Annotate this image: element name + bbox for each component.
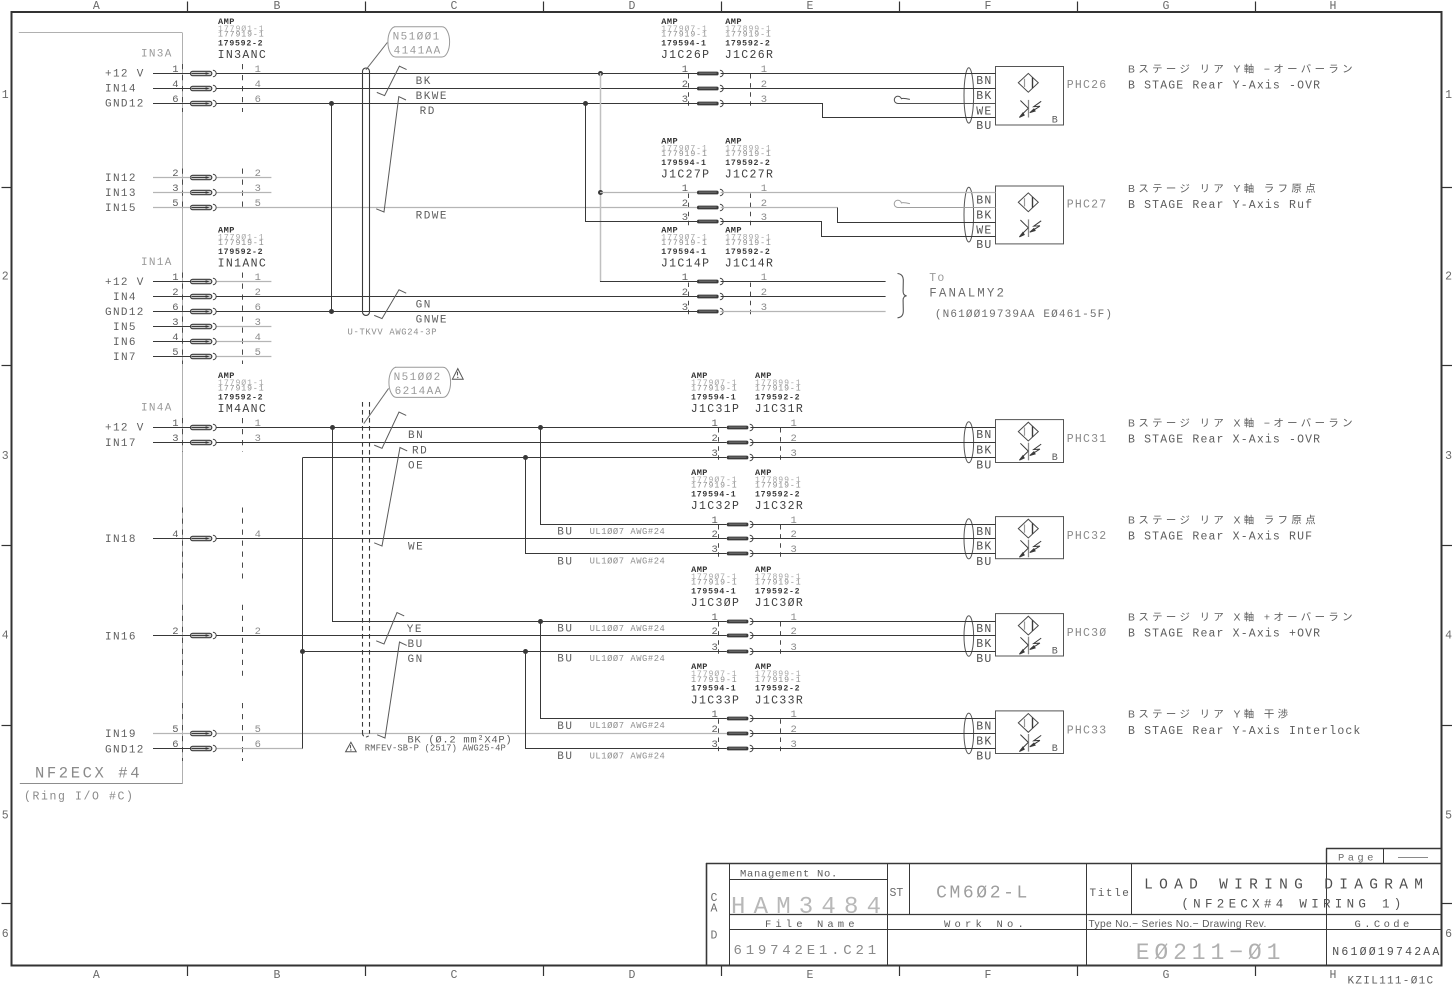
svg-text:2: 2 <box>2 271 9 284</box>
svg-text:3: 3 <box>791 739 797 751</box>
wire label BU UL1007 AWG#24 <box>557 624 665 636</box>
connector J1C31R pin number 3 <box>791 448 797 460</box>
svg-text:BK: BK <box>976 638 992 651</box>
svg-text:IN17: IN17 <box>105 438 137 450</box>
pin number 3 <box>172 433 178 445</box>
connector label J1C14R <box>725 258 775 271</box>
svg-text:GNWE: GNWE <box>416 315 448 327</box>
svg-text:D: D <box>629 0 636 13</box>
svg-text:J1C31P: J1C31P <box>691 403 741 416</box>
svg-text:BU: BU <box>976 751 992 764</box>
wire label BK at PHC32 <box>976 541 992 554</box>
connector J1C31P/J1C31R boundary dashed lines <box>719 428 781 463</box>
wire color label BKWE <box>416 91 448 103</box>
svg-text:2: 2 <box>711 433 717 445</box>
description (EN) for PHC31 <box>1128 434 1321 447</box>
svg-text:GN: GN <box>416 300 432 312</box>
svg-text:N51ØØ2: N51ØØ2 <box>394 372 442 384</box>
svg-text:IN14: IN14 <box>105 84 137 96</box>
svg-text:177919-1: 177919-1 <box>661 150 708 159</box>
pin 3 terminal <box>191 323 217 330</box>
connector boundary dashed lines <box>183 508 243 579</box>
connector J1C26R pin number 2 <box>761 79 767 91</box>
svg-text:Bステージ リア X軸 −オーバーラン: Bステージ リア X軸 −オーバーラン <box>1128 416 1356 429</box>
svg-text:RDWE: RDWE <box>416 210 448 222</box>
connector J1C3ØP pin number 1 <box>711 612 717 624</box>
svg-text:IN18: IN18 <box>105 534 137 546</box>
drawing title LOAD WIRING DIAGRAM <box>1144 878 1429 912</box>
svg-text:UL1ØØ7 AWG#24: UL1ØØ7 AWG#24 <box>590 624 666 634</box>
pin 2 terminal <box>191 174 217 181</box>
svg-text:1: 1 <box>791 612 797 624</box>
svg-text:J1C33R: J1C33R <box>755 694 805 707</box>
connector boundary dashed lines <box>183 169 243 213</box>
svg-text:A: A <box>711 903 718 916</box>
svg-text:+12 V: +12 V <box>105 423 145 435</box>
svg-text:HAM3484: HAM3484 <box>731 894 889 921</box>
connector J1C14P part number stack <box>661 225 708 257</box>
svg-text:5: 5 <box>2 810 9 823</box>
pin number 2 <box>172 287 178 299</box>
wire GND branch to J1C33P pin3 <box>526 652 727 749</box>
signal label IN13 <box>105 188 137 200</box>
description (EN) for PHC3Ø <box>1128 628 1321 641</box>
CAD column label <box>711 892 718 943</box>
photocoupler PHC26 box <box>996 67 1064 126</box>
ST label <box>890 887 904 900</box>
svg-text:IN13: IN13 <box>105 188 137 200</box>
svg-text:IN15: IN15 <box>105 203 137 215</box>
connector J1C32P pin number 1 <box>711 515 717 527</box>
svg-text:IN16: IN16 <box>105 632 137 644</box>
svg-text:3: 3 <box>682 94 688 106</box>
svg-text:177919-1: 177919-1 <box>661 239 708 248</box>
svg-text:RMFEV-SB-P (2517) AWG25-4P: RMFEV-SB-P (2517) AWG25-4P <box>365 744 506 754</box>
svg-text:179592-2: 179592-2 <box>725 39 770 48</box>
wire color label YE <box>407 624 423 636</box>
signal label IN16 <box>105 632 137 644</box>
svg-text:+12 V: +12 V <box>105 277 145 289</box>
junction dot at (525.6,457.5) <box>523 455 528 460</box>
svg-text:RD: RD <box>420 106 436 118</box>
pin number 1 (connector side) <box>255 272 261 284</box>
svg-text:File Name: File Name <box>765 919 859 931</box>
svg-text:Bステージ リア Y軸 ラフ原点: Bステージ リア Y軸 ラフ原点 <box>1128 182 1319 195</box>
svg-text:J1C31R: J1C31R <box>755 403 805 416</box>
svg-text:177919-1: 177919-1 <box>218 239 265 248</box>
svg-text:UL1ØØ7 AWG#24: UL1ØØ7 AWG#24 <box>590 751 666 761</box>
connector J1C27P pin 2 terminal <box>697 204 723 211</box>
connector J1C3ØR pin number 1 <box>791 612 797 624</box>
svg-text:E: E <box>807 969 814 982</box>
svg-text:BN: BN <box>976 526 992 539</box>
pin 6 terminal <box>191 100 217 107</box>
pair mark GN/BK-4P <box>377 642 407 738</box>
svg-text:1: 1 <box>711 418 717 430</box>
connector J1C26P pin number 3 <box>682 94 688 106</box>
svg-text:6214AA: 6214AA <box>395 386 443 398</box>
connector label J1C26R <box>725 49 775 62</box>
wire color label RD <box>412 445 428 457</box>
pin number 6 <box>172 302 178 314</box>
pin number 6 (connector side) <box>255 94 261 106</box>
connector boundary dashed lines <box>183 418 243 452</box>
svg-text:1: 1 <box>791 418 797 430</box>
svg-text:J1C14R: J1C14R <box>725 258 775 271</box>
svg-text:G: G <box>1163 969 1170 982</box>
svg-text:EØ211−Ø1: EØ211−Ø1 <box>1136 940 1286 966</box>
wire into PHC33 <box>750 748 995 750</box>
wire IN13 stub <box>217 192 272 194</box>
wire label BN at PHC31 <box>976 429 992 442</box>
svg-text:6: 6 <box>172 94 178 106</box>
svg-text:G: G <box>1163 0 1170 13</box>
svg-text:3: 3 <box>2 450 9 463</box>
pin number 4 <box>172 79 178 91</box>
File Name header <box>765 919 859 931</box>
signal label +12 V <box>105 69 145 81</box>
pin number 6 <box>172 94 178 106</box>
svg-text:J1C32R: J1C32R <box>755 500 805 513</box>
phototransistor symbol in PHC26 <box>1019 100 1041 118</box>
wire IN5 label to pin3 <box>153 326 191 328</box>
svg-text:BU: BU <box>557 624 573 636</box>
svg-text:3: 3 <box>682 212 688 224</box>
svg-text:2: 2 <box>172 287 178 299</box>
junction dot GND at (331.8,311.5) <box>329 309 334 314</box>
warning triangle at RMFEV cable note <box>346 742 357 751</box>
connector J1C31P pin 2 terminal <box>727 439 753 446</box>
connector label J1C31R <box>755 403 805 416</box>
pin 5 terminal <box>191 353 217 360</box>
wire GND riser x=585.2 to J1C27P pin3 <box>586 104 698 222</box>
pin number 5 (connector side) <box>255 198 261 210</box>
wire label BN at PHC27 <box>976 195 992 208</box>
pair mark GN/GNWE <box>374 290 406 319</box>
wire label BU at PHC3Ø <box>976 653 992 666</box>
connector J1C32R pin number 1 <box>791 515 797 527</box>
wire color label BU <box>408 639 424 651</box>
svg-text:C: C <box>451 969 458 982</box>
cable spec label U-TKVV AWG24-3P <box>348 328 438 338</box>
G.Code header <box>1355 919 1413 931</box>
svg-text:1: 1 <box>682 64 688 76</box>
svg-text:BK: BK <box>976 736 992 749</box>
warning triangle at balloon N51002 <box>452 369 463 380</box>
connector J1C3ØP pin 1 terminal <box>727 618 753 625</box>
junction dot at (525.6,651) <box>523 649 528 654</box>
svg-text:179592-2: 179592-2 <box>725 248 770 257</box>
signal label IN19 <box>105 729 137 741</box>
svg-text:1: 1 <box>711 515 717 527</box>
svg-text:4: 4 <box>2 630 9 643</box>
description (JP) for PHC31 <box>1128 416 1356 429</box>
component label PHC3Ø <box>1067 627 1108 640</box>
wire into PHC26 <box>721 73 996 75</box>
signal label IN5 <box>113 322 137 334</box>
wire color label RDWE <box>416 210 448 222</box>
wire IN16 label to pin2 <box>153 635 191 637</box>
svg-text:B: B <box>274 969 281 982</box>
junction dot GND at (331.8,103) <box>329 101 334 106</box>
svg-text:4: 4 <box>255 529 261 541</box>
svg-text:2: 2 <box>255 287 261 299</box>
svg-text:179594-1: 179594-1 <box>691 393 736 402</box>
balloon N51002 / 6214AA <box>389 367 451 398</box>
connector J1C27P pin number 2 <box>682 198 688 210</box>
pin number 6 (connector side) <box>255 302 261 314</box>
description (EN) for PHC33 <box>1128 725 1361 738</box>
pin number 4 <box>172 529 178 541</box>
svg-text:179594-1: 179594-1 <box>661 248 706 257</box>
photocoupler PHC3Ø cable grommet <box>964 616 974 656</box>
svg-text:Bステージ リア Y軸 干渉: Bステージ リア Y軸 干渉 <box>1128 708 1291 721</box>
connector J1C33P pin number 2 <box>711 724 717 736</box>
connector J1C33P/J1C33R boundary dashed lines <box>719 719 781 753</box>
connector J1C14R pin number 1 <box>761 272 767 284</box>
photocoupler PHC26 cable grommet <box>964 68 974 123</box>
svg-text:177919-1: 177919-1 <box>755 385 802 394</box>
svg-text:1: 1 <box>761 64 767 76</box>
wire into PHC3Ø <box>750 621 995 623</box>
svg-text:B: B <box>1052 647 1058 658</box>
component label PHC31 <box>1067 433 1108 446</box>
node IN3A group label <box>141 49 173 61</box>
svg-text:J1C14P: J1C14P <box>661 258 711 271</box>
connector label IM4ANC <box>218 403 268 416</box>
wire +12V IN1A pin1 stub <box>217 281 272 283</box>
connector J1C3ØP pin number 2 <box>711 626 717 638</box>
wire color label RD <box>420 106 436 118</box>
wire +12V feed to J1C14P pin1 <box>600 281 697 283</box>
svg-text:D: D <box>711 930 718 943</box>
component label PHC26 <box>1067 79 1108 92</box>
connector J1C31P pin number 2 <box>711 433 717 445</box>
svg-text:IN4A: IN4A <box>141 403 173 415</box>
wire label WE at PHC26 <box>976 106 992 119</box>
connector J1C33P pin number 3 <box>711 739 717 751</box>
pin 1 terminal <box>191 70 217 77</box>
description (EN) for PHC27 <box>1128 199 1313 212</box>
svg-text:3: 3 <box>791 544 797 556</box>
svg-text:A: A <box>93 0 100 13</box>
pin number 3 (connector side) <box>255 317 261 329</box>
svg-text:Bステージ リア Y軸 −オーバーラン: Bステージ リア Y軸 −オーバーラン <box>1128 62 1356 75</box>
wire IN14 label to pin4 <box>153 88 191 90</box>
svg-text:IN12: IN12 <box>105 173 137 185</box>
wire label BU at PHC27 <box>976 239 992 252</box>
cable N51002 bundle (RMFEV-SB-P shielded, dashed) <box>363 402 370 737</box>
svg-text:177919-1: 177919-1 <box>725 31 772 40</box>
wire GND branch to J1C32P pin3 <box>526 458 727 554</box>
svg-text:BK: BK <box>976 445 992 458</box>
svg-text:2: 2 <box>711 626 717 638</box>
svg-text:H: H <box>1330 0 1337 13</box>
svg-text:J1C26R: J1C26R <box>725 49 775 62</box>
svg-text:F: F <box>985 0 992 13</box>
connector J1C31P pin 1 terminal <box>727 424 753 431</box>
connector label J1C32P <box>691 500 741 513</box>
junction dot GND at (585.2,103) <box>583 101 588 106</box>
photo emitter/detector symbol in PHC31 <box>1018 422 1038 441</box>
description (JP) for PHC33 <box>1128 708 1291 721</box>
photo emitter/detector symbol in PHC26 <box>1018 73 1038 92</box>
svg-text:UL1ØØ7 AWG#24: UL1ØØ7 AWG#24 <box>590 721 666 731</box>
svg-text:J1C33P: J1C33P <box>691 694 741 707</box>
pair mark BK/BKWE <box>377 66 407 95</box>
connector J1C33P pin 3 terminal <box>727 745 753 752</box>
svg-text:N61ØØ19742AA: N61ØØ19742AA <box>1332 946 1441 959</box>
wire IN12 stub <box>217 177 272 179</box>
svg-text:1: 1 <box>172 272 178 284</box>
balloon N51001 / 4141AA <box>388 27 450 58</box>
connector J1C3ØP pin 2 terminal <box>727 632 753 639</box>
svg-text:4: 4 <box>1445 630 1452 643</box>
pin 6 terminal <box>191 745 217 752</box>
connector J1C27P/J1C27R boundary dashed lines <box>689 194 751 227</box>
connector J1C26P/J1C26R boundary dashed lines <box>689 74 751 108</box>
pin number 3 (connector side) <box>255 183 261 195</box>
connector J1C31R pin number 2 <box>791 433 797 445</box>
svg-text:J1C26P: J1C26P <box>661 49 711 62</box>
wire into PHC31 <box>750 427 995 429</box>
pin number 5 <box>172 198 178 210</box>
signal label IN15 <box>105 203 137 215</box>
svg-text:3: 3 <box>711 739 717 751</box>
pin number 2 (connector side) <box>255 168 261 180</box>
phototransistor symbol in PHC32 <box>1019 540 1041 558</box>
svg-text:B: B <box>1052 116 1058 127</box>
svg-text:179592-2: 179592-2 <box>725 159 770 168</box>
svg-text:J1C3ØP: J1C3ØP <box>691 597 741 610</box>
connector label J1C3ØR <box>755 597 805 610</box>
svg-text:6: 6 <box>255 302 261 314</box>
svg-text:2: 2 <box>682 79 688 91</box>
connector J1C31R pin number 1 <box>791 418 797 430</box>
cable N51001 bundle (U-TKVV AWG24-3P) <box>363 68 370 315</box>
wire into PHC31 <box>750 442 995 444</box>
connector J1C27P pin number 1 <box>682 183 688 195</box>
svg-text:177919-1: 177919-1 <box>725 150 772 159</box>
wire IN15 label to pin5 <box>153 207 191 209</box>
wire color label WE <box>408 542 424 554</box>
svg-text:1: 1 <box>761 272 767 284</box>
wire label BU at PHC32 <box>976 556 992 569</box>
svg-text:6: 6 <box>172 739 178 751</box>
connector J1C26P pin 1 terminal <box>697 70 723 77</box>
connector J1C31P pin number 3 <box>711 448 717 460</box>
svg-text:3: 3 <box>791 448 797 460</box>
svg-text:177919-1: 177919-1 <box>755 579 802 588</box>
svg-text:B: B <box>274 0 281 13</box>
svg-text:179592-2: 179592-2 <box>755 393 800 402</box>
wire +12V label to IN1A pin1 <box>153 281 191 283</box>
svg-text:B: B <box>1052 453 1058 464</box>
wire color label BK <box>416 76 432 88</box>
svg-text:Bステージ リア X軸 +オーバーラン: Bステージ リア X軸 +オーバーラン <box>1128 610 1356 623</box>
pin number 2 (connector side) <box>255 626 261 638</box>
connector J1C33P part number stack <box>691 662 738 694</box>
connector J1C3ØP/J1C3ØR boundary dashed lines <box>719 622 781 656</box>
signal label IN12 <box>105 173 137 185</box>
connector J1C32P pin 1 terminal <box>727 521 753 528</box>
connector J1C32R part number stack <box>755 468 802 500</box>
svg-text:1: 1 <box>255 64 261 76</box>
description (JP) for PHC3Ø <box>1128 610 1356 623</box>
connector J1C26R pin number 3 <box>761 94 767 106</box>
wire label BU at PHC33 <box>976 751 992 764</box>
wire label BU UL1007 AWG#24 <box>557 654 665 666</box>
connector J1C33R pin number 2 <box>791 724 797 736</box>
pin number 1 <box>172 64 178 76</box>
wire IN19 label to pin5 <box>153 733 191 735</box>
connector boundary dashed lines <box>183 605 243 676</box>
svg-text:B: B <box>1052 744 1058 755</box>
wire label BU UL1007 AWG#24 <box>557 527 665 539</box>
wire with jog into PHC27 <box>721 222 996 237</box>
connector label J1C32R <box>755 500 805 513</box>
signal label GND12 <box>105 99 145 111</box>
wire label BU at PHC31 <box>976 460 992 473</box>
signal label IN17 <box>105 438 137 450</box>
wire IN7 stub <box>217 356 272 358</box>
svg-text:177919-1: 177919-1 <box>755 482 802 491</box>
svg-text:IN7: IN7 <box>113 352 137 364</box>
connector boundary dashed lines <box>183 273 243 365</box>
connector label J1C33R <box>755 694 805 707</box>
connector J1C33P pin 2 terminal <box>727 730 753 737</box>
svg-text:LOAD WIRING DIAGRAM: LOAD WIRING DIAGRAM <box>1144 878 1429 894</box>
svg-text:H: H <box>1330 969 1337 982</box>
svg-text:2: 2 <box>791 529 797 541</box>
connector label J1C31P <box>691 403 741 416</box>
svg-text:OE: OE <box>408 461 424 473</box>
wire label BU at PHC26 <box>976 120 992 133</box>
svg-text:Page: Page <box>1338 853 1377 865</box>
svg-text:BKWE: BKWE <box>416 91 448 103</box>
wire IN6 stub <box>217 341 272 343</box>
machine type CM602-L <box>936 884 1030 904</box>
wire +12V IN3A pin1 to J1C26P pin1 <box>217 73 698 75</box>
svg-text:BU: BU <box>976 460 992 473</box>
wire +12V riser x=600 <box>600 73 602 282</box>
pin 5 terminal <box>191 204 217 211</box>
signal label GND12 (IN1A) <box>105 307 145 319</box>
svg-text:1: 1 <box>791 709 797 721</box>
svg-text:BK: BK <box>416 76 432 88</box>
svg-text:J1C3ØR: J1C3ØR <box>755 597 805 610</box>
pin number 2 <box>172 626 178 638</box>
svg-text:177919-1: 177919-1 <box>218 31 265 40</box>
pin 1 terminal <box>191 278 217 285</box>
svg-text:1: 1 <box>255 418 261 430</box>
svg-text:2: 2 <box>791 626 797 638</box>
wire into PHC33 <box>750 718 995 720</box>
svg-text:E: E <box>807 0 814 13</box>
svg-text:2: 2 <box>255 626 261 638</box>
svg-text:177919-1: 177919-1 <box>691 385 738 394</box>
pin number 3 <box>172 183 178 195</box>
svg-text:179592-2: 179592-2 <box>755 685 800 694</box>
connector J1C14R pin number 3 <box>761 302 767 314</box>
svg-text:IN6: IN6 <box>113 337 137 349</box>
svg-text:6: 6 <box>172 302 178 314</box>
svg-text:UL1ØØ7 AWG#24: UL1ØØ7 AWG#24 <box>590 654 666 664</box>
connector J1C27P pin number 3 <box>682 212 688 224</box>
connector J1C32P pin number 2 <box>711 529 717 541</box>
block label NF2ECX #4 <box>35 765 142 783</box>
wire IN19 to J1C33P pin2 <box>217 733 727 735</box>
